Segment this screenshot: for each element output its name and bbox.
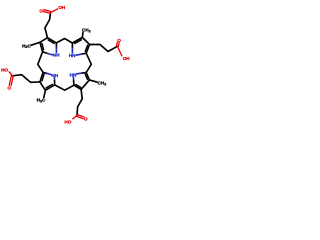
pyrrole ring C (SE): C2=C3 bond with inner line	[74, 85, 81, 89]
methyl bond SW	[44, 90, 46, 97]
svg-text:NH: NH	[53, 52, 60, 57]
carboxyl C-OH bond NW	[51, 9, 58, 13]
pyrrole ring A (NW): N1-C5 bond	[43, 52, 48, 54]
svg-text:NH: NH	[51, 73, 58, 78]
pyrrole ring D (SW): N1-C2 bond	[51, 78, 58, 81]
meso CH2 bridge left (ring A - ring D)	[38, 52, 43, 73]
pyrrole ring A (NW): C2=C3 bond with inner line	[48, 38, 57, 43]
carboxyl C-OH bond SE	[73, 116, 77, 119]
svg-text:HO: HO	[64, 119, 71, 124]
svg-text:O: O	[84, 117, 88, 122]
meso CH2 bridge right (ring B - ring C)	[86, 53, 91, 72]
meso CH2 bridge bottom (ring D - ring C)	[55, 85, 74, 90]
pyrrole ring D (SW): N1-C5 bond	[43, 72, 47, 73]
carboxyl C=O double bond NE	[116, 43, 122, 47]
background	[0, 0, 130, 130]
carboxyl C=O double bond SE	[77, 116, 84, 118]
svg-text:OH: OH	[123, 56, 130, 61]
pyrrole ring C (SE): C3-C4 bond	[81, 80, 89, 90]
pyrrole ring D (SW): C3-C4 bond	[40, 82, 46, 90]
svg-text:OH: OH	[58, 5, 66, 10]
svg-text:HO: HO	[1, 67, 8, 72]
carboxyl C=O double bond SW	[9, 76, 11, 86]
methyl bond SE	[89, 80, 97, 82]
meso CH2 bridge top (ring A - ring B)	[56, 39, 72, 44]
pyrrole ring A (NW): N1-C2 bond	[53, 43, 60, 48]
svg-text:HN: HN	[69, 53, 76, 58]
pyrrole ring B (NE): C4=C5 bond with inner line	[86, 45, 89, 54]
pyrrole ring B (NE): C3-C4 bond	[82, 37, 89, 44]
svg-text:HN: HN	[70, 73, 77, 78]
methyl bond NW	[31, 42, 40, 45]
svg-text:O: O	[117, 38, 121, 43]
pyrrole ring B (NE): C2=C3 bond with inner line	[72, 37, 82, 43]
propionate chain SW (CH2-CH2)	[12, 75, 40, 83]
carboxyl C=O double bond NW	[44, 10, 51, 12]
propionate chain NE (CH2-CH2)	[90, 44, 118, 51]
propionate chain NW (CH2-CH2)	[45, 12, 51, 37]
pyrrole ring B (NE): N1-C5 bond	[81, 53, 86, 54]
svg-text:O: O	[7, 86, 11, 91]
pyrrole ring C (SE): C4=C5 bond with inner line	[86, 73, 89, 80]
carboxyl C-OH bond SW	[9, 72, 12, 76]
pyrrole ring C (SE): N1-C5 bond	[81, 69, 86, 76]
pyrrole ring B (NE): N1-C2 bond	[69, 43, 76, 48]
chemical structure: coproporphyrinogen (porphyrinogen macrocycle)	[0, 0, 130, 130]
pyrrole ring C (SE): N1-C2 bond	[70, 77, 77, 81]
methyl bond NE	[79, 32, 86, 37]
carboxyl C-OH bond NE	[117, 46, 122, 56]
pyrrole ring A (NW): C4=C5 bond with inner line	[40, 42, 43, 52]
propionate chain SE (CH2-CH2)	[77, 89, 82, 115]
pyrrole ring D (SW): C4=C5 bond with inner line	[40, 72, 43, 82]
pyrrole ring A (NW): C3-C4 bond	[40, 38, 48, 43]
pyrrole ring D (SW): C2=C3 bond with inner line	[45, 85, 54, 90]
svg-text:O: O	[39, 8, 43, 13]
